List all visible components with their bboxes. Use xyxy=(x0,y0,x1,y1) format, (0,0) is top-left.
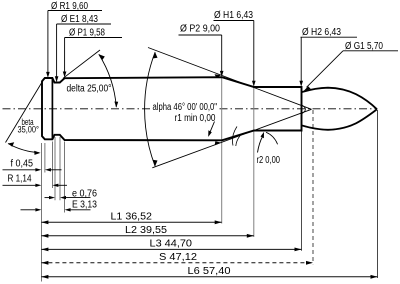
svg-text:r1 min 0,00: r1 min 0,00 xyxy=(175,113,216,124)
label G1 leader xyxy=(304,51,398,91)
label G1 text xyxy=(345,41,383,52)
alpha angle arc xyxy=(145,52,158,166)
label alpha text xyxy=(151,101,218,113)
rim back face edge xyxy=(51,78,53,139)
extension line v3 rim back xyxy=(51,142,53,189)
label H2 leader xyxy=(299,37,357,86)
alpha cone line upper xyxy=(148,48,312,110)
label R1 text xyxy=(51,1,88,12)
label beta text xyxy=(18,117,40,136)
label H2 text xyxy=(302,27,341,38)
extension line v5 groove right xyxy=(59,137,61,200)
label P2 text xyxy=(180,24,220,35)
dimension E xyxy=(21,208,91,211)
svg-text:L2 39,55: L2 39,55 xyxy=(125,225,167,236)
r2 radius arc xyxy=(266,132,278,144)
svg-text:Ø R1 9,60: Ø R1 9,60 xyxy=(51,1,88,12)
label L6 text xyxy=(188,266,231,277)
svg-text:Ø P1 9,58: Ø P1 9,58 xyxy=(69,28,105,39)
extension line v6 groove end xyxy=(64,142,66,213)
svg-text:Ø H1 6,43: Ø H1 6,43 xyxy=(214,10,253,21)
dimension L2 xyxy=(41,234,253,238)
svg-text:E 3,13: E 3,13 xyxy=(72,200,97,211)
label P2 leader xyxy=(179,35,224,77)
extension line L2/H1 through neck xyxy=(253,87,255,237)
label P1 text xyxy=(69,28,105,39)
extension line L1/P2 through case xyxy=(221,77,223,223)
svg-text:r2 0,00: r2 0,00 xyxy=(257,155,281,166)
svg-text:alpha 46° 00' 00,0": alpha 46° 00' 00,0" xyxy=(153,102,218,113)
bullet ogive top xyxy=(302,88,378,110)
dimension L1 xyxy=(41,220,221,224)
svg-text:Ø H2 6,43: Ø H2 6,43 xyxy=(302,27,341,38)
beta angle arc xyxy=(8,142,41,155)
label L1 text xyxy=(111,212,153,223)
svg-text:delta 25,00°: delta 25,00° xyxy=(67,84,112,95)
dimension S xyxy=(41,261,313,265)
bullet ogive bottom xyxy=(302,109,378,130)
label f text xyxy=(11,159,34,170)
r1 radius arc 2 xyxy=(236,136,240,146)
case outline xyxy=(42,77,302,140)
r2 leader xyxy=(258,132,265,153)
svg-text:S 47,12: S 47,12 xyxy=(159,252,197,263)
extension line S (dashed, cone apex) xyxy=(312,110,314,264)
svg-text:R 1,14: R 1,14 xyxy=(8,174,32,185)
delta reference diagonal xyxy=(63,50,100,78)
dimension L3 xyxy=(41,248,301,252)
label H1 text xyxy=(214,10,253,21)
svg-text:L1 36,52: L1 36,52 xyxy=(111,212,153,223)
label E1 leader xyxy=(55,24,111,82)
extension line v4 groove left xyxy=(54,137,56,200)
label r2 text xyxy=(257,155,281,166)
label delta text xyxy=(67,84,112,95)
center line (cartridge axis) xyxy=(3,108,378,110)
label L2 text xyxy=(125,225,167,236)
r1 leader xyxy=(208,122,214,137)
label L3 text xyxy=(150,239,193,250)
svg-text:L3 44,70: L3 44,70 xyxy=(150,239,193,250)
cone apex arc at bullet base xyxy=(302,105,306,114)
svg-text:f 0,45: f 0,45 xyxy=(11,159,34,170)
extension line L6 from bullet tip xyxy=(377,110,379,278)
extension line v1 case head datum xyxy=(40,143,42,282)
dimension e xyxy=(45,196,91,199)
label R text xyxy=(8,174,32,185)
beta reference diagonal xyxy=(6,81,44,143)
label r1 min text xyxy=(175,113,216,124)
label E text xyxy=(72,200,97,211)
label e text xyxy=(72,189,97,200)
svg-text:Ø G1 5,70: Ø G1 5,70 xyxy=(345,41,383,52)
r1 radius arc xyxy=(232,127,237,146)
extension line L3 below mouth xyxy=(301,131,303,251)
dimension R xyxy=(3,184,68,187)
label P1 leader xyxy=(63,38,122,78)
extension line v2 f-bevel xyxy=(44,143,46,173)
svg-text:L6 57,40: L6 57,40 xyxy=(188,266,231,277)
svg-text:Ø P2 9,00: Ø P2 9,00 xyxy=(180,24,220,35)
delta angle arc xyxy=(99,54,118,108)
svg-text:Ø E1 8,43: Ø E1 8,43 xyxy=(61,14,98,25)
label H1 leader xyxy=(214,21,256,87)
label S text xyxy=(159,252,197,263)
alpha cone line lower xyxy=(152,109,311,168)
dimension f xyxy=(3,168,62,171)
svg-text:e 0,76: e 0,76 xyxy=(72,189,97,200)
dimension L6 xyxy=(41,275,377,279)
label R1 leader xyxy=(46,11,102,78)
svg-text:35,00°: 35,00° xyxy=(18,125,40,136)
label E1 text xyxy=(61,14,98,25)
